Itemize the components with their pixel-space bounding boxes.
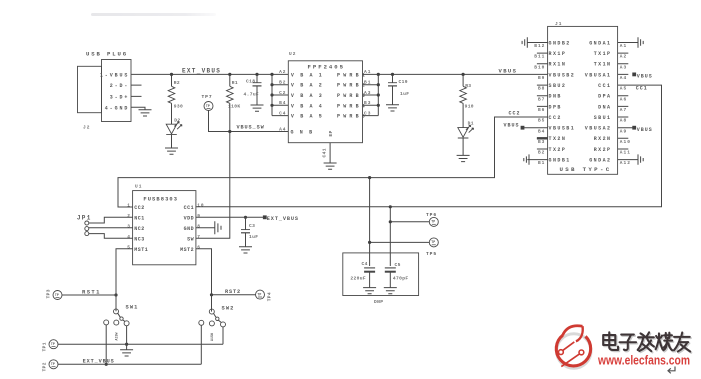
svg-text:VBA4: VBA4 [291,103,328,109]
svg-text:930: 930 [174,103,183,109]
svg-text:VBUS: VBUS [637,74,653,80]
svg-text:TX1N: TX1N [594,62,612,68]
svg-text:B11: B11 [534,54,545,60]
svg-text:GNDB2: GNDB2 [549,40,571,46]
svg-text:910: 910 [465,104,474,110]
svg-text:TP2: TP2 [42,362,48,371]
svg-text:PWRB4: PWRB4 [337,103,368,109]
svg-text:SW1: SW1 [126,305,139,311]
svg-text:GNDA2: GNDA2 [589,158,611,164]
svg-text:SBU1: SBU1 [594,115,612,121]
svg-text:EXT_VBUS: EXT_VBUS [267,216,299,222]
svg-text:www.elecfans.com: www.elecfans.com [597,353,690,368]
svg-text:A5: A5 [620,86,627,92]
svg-text:10: 10 [197,202,204,208]
svg-text:U1: U1 [135,184,142,190]
svg-text:5: 5 [127,244,131,250]
svg-text:USB TYP-C: USB TYP-C [560,166,612,173]
svg-text:3: 3 [127,223,131,229]
svg-text:8: 8 [197,223,201,229]
svg-text:J2: J2 [83,125,90,131]
svg-text:PWRB5: PWRB5 [337,114,368,120]
svg-text:B3: B3 [538,139,545,145]
svg-text:6: 6 [197,244,201,250]
svg-text:EP: EP [328,130,334,136]
svg-text:B9: B9 [538,75,545,81]
svg-text:CC2: CC2 [509,110,521,116]
svg-text:2-D-: 2-D- [110,83,130,89]
svg-text:VBUSB2: VBUSB2 [549,72,576,78]
svg-text:VBUS: VBUS [499,67,518,74]
svg-text:CC1: CC1 [636,86,648,92]
svg-text:A10: A10 [620,139,631,145]
svg-text:B12: B12 [534,43,545,49]
svg-text:B10: B10 [534,64,545,70]
svg-text:R3: R3 [465,83,471,89]
svg-text:2: 2 [127,213,131,219]
svg-text:VBA5: VBA5 [291,114,328,120]
svg-text:DNB: DNB [549,94,562,100]
svg-text:A6: A6 [620,96,627,102]
svg-text:DNA: DNA [598,104,611,110]
svg-text:C3: C3 [249,223,255,229]
svg-text:VBUS_SW: VBUS_SW [237,125,265,131]
svg-text:1uF: 1uF [249,234,258,240]
svg-text:B2: B2 [538,150,545,156]
svg-text:A1: A1 [620,43,627,49]
svg-text:CC1: CC1 [184,205,195,211]
svg-text:SW: SW [187,236,194,242]
svg-text:B4: B4 [538,128,545,134]
svg-text:TP5: TP5 [426,251,437,257]
svg-text:B7: B7 [538,96,545,102]
svg-text:R1: R1 [232,80,238,86]
svg-text:R2: R2 [174,80,180,86]
svg-text:GNDA1: GNDA1 [589,40,611,46]
svg-text:DPA: DPA [598,94,611,100]
svg-text:VBA1: VBA1 [291,72,328,78]
svg-text:B5: B5 [538,118,545,124]
svg-text:USB PLUG: USB PLUG [86,51,128,58]
svg-text:C41: C41 [322,148,328,157]
svg-text:RST1: RST1 [82,288,101,295]
svg-text:1uF: 1uF [400,91,409,97]
svg-text:TP4: TP4 [267,292,273,301]
svg-text:VBUS: VBUS [637,127,653,133]
svg-text:VBUSA2: VBUSA2 [585,126,612,132]
svg-text:A12: A12 [620,160,631,166]
svg-text:EXT_VBUS: EXT_VBUS [182,67,221,74]
svg-text:A9: A9 [620,128,627,134]
svg-text:CC1: CC1 [598,83,611,89]
svg-text:VDD: VDD [184,215,195,221]
svg-text:MST2: MST2 [180,247,194,253]
svg-text:PWRB1: PWRB1 [337,72,368,78]
svg-text:EXT_VBUS: EXT_VBUS [83,358,115,364]
svg-text:RST2: RST2 [225,289,241,295]
svg-text:A1SW: A1SW [114,332,118,340]
svg-text:220uF: 220uF [350,276,366,282]
svg-text:A11: A11 [620,150,631,156]
svg-text:FPF2405: FPF2405 [308,64,346,71]
svg-text:PWRB3: PWRB3 [337,93,368,99]
svg-text:NC1: NC1 [134,215,145,221]
svg-text:A7: A7 [620,107,627,113]
svg-text:SBU2: SBU2 [549,83,567,89]
svg-text:SW2: SW2 [222,306,235,312]
svg-text:RX1P: RX1P [549,51,567,57]
svg-text:1-VBUS: 1-VBUS [100,73,129,79]
svg-text:B1: B1 [538,160,545,166]
svg-text:DPB: DPB [549,104,562,110]
svg-text:3-D+: 3-D+ [110,95,130,101]
svg-text:FUSB8303: FUSB8303 [143,197,178,203]
svg-text:MST1: MST1 [134,247,148,253]
svg-text:PWRB2: PWRB2 [337,83,368,89]
svg-text:GNB: GNB [291,130,319,136]
svg-text:RX2N: RX2N [594,136,612,142]
svg-text:CC2: CC2 [549,115,562,121]
svg-text:VBA2: VBA2 [291,83,328,89]
svg-text:A1SW: A1SW [210,333,214,341]
svg-text:4: 4 [127,234,131,240]
svg-text:VBA3: VBA3 [291,93,328,99]
svg-text:TX1P: TX1P [594,51,612,57]
svg-text:D2: D2 [174,117,180,123]
svg-text:NC3: NC3 [134,236,145,242]
svg-text:TX2P: TX2P [549,147,567,153]
svg-text:VBUS: VBUS [504,122,520,128]
svg-text:D1: D1 [468,120,474,126]
svg-text:TP6: TP6 [426,212,437,218]
svg-text:A3: A3 [620,64,627,70]
svg-text:VBUSA1: VBUSA1 [585,72,612,78]
svg-text:DNP: DNP [374,299,383,305]
svg-text:4-GND: 4-GND [105,105,130,111]
svg-text:A2: A2 [620,54,627,60]
svg-text:C18: C18 [246,79,255,85]
svg-text:C4: C4 [362,261,368,267]
svg-text:C19: C19 [399,79,408,85]
svg-text:RX1N: RX1N [549,62,567,68]
svg-text:9: 9 [197,213,201,219]
svg-text:JP1: JP1 [77,214,92,221]
svg-text:NC2: NC2 [134,226,145,232]
svg-text:RX2P: RX2P [594,147,612,153]
svg-text:J1: J1 [555,21,562,27]
svg-text:470pF: 470pF [393,276,409,282]
svg-text:GNDB1: GNDB1 [549,158,571,164]
svg-text:U2: U2 [289,51,296,57]
svg-text:C5: C5 [395,262,401,268]
svg-text:7: 7 [197,234,201,240]
svg-text:VBUSB1: VBUSB1 [549,126,576,132]
svg-text:B8: B8 [538,86,545,92]
svg-text:A4: A4 [620,75,627,81]
svg-text:TP3: TP3 [46,289,52,298]
svg-text:A8: A8 [620,118,627,124]
svg-text:TP7: TP7 [202,94,213,100]
svg-text:CC2: CC2 [134,205,145,211]
svg-text:GND: GND [184,226,195,232]
svg-text:TP1: TP1 [42,342,48,351]
svg-text:B6: B6 [538,107,545,113]
svg-text:TX2N: TX2N [549,136,567,142]
